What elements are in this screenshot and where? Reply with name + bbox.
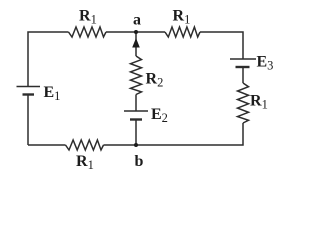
battery E1 short plate (23, 93, 35, 95)
resistor R1 top-right (165, 27, 200, 37)
svg-text:b: b (135, 153, 144, 170)
battery E3 short plate (236, 66, 250, 68)
resistor R1 bottom (66, 140, 104, 150)
svg-text:R1: R1 (250, 93, 268, 112)
battery E1 long plate (17, 86, 41, 88)
resistor R1 top-left (69, 27, 107, 37)
svg-text:E3: E3 (257, 54, 274, 73)
resistor R2 (131, 56, 142, 95)
wire top-middle segment (106, 31, 165, 33)
wire right lower segment (104, 123, 244, 145)
node a junction dot (134, 30, 138, 34)
svg-text:R1: R1 (76, 153, 94, 172)
battery E2 short plate (130, 118, 142, 120)
node b junction dot (134, 143, 138, 147)
svg-text:R2: R2 (146, 71, 164, 90)
battery E3 long plate (230, 58, 256, 60)
wire E3 to R1 right (242, 67, 244, 83)
svg-text:R1: R1 (79, 8, 97, 27)
wire top-right segment (200, 32, 243, 59)
battery E2 long plate (124, 110, 148, 112)
svg-text:R1: R1 (173, 8, 191, 27)
wire middle branch upper (node a to R2) (135, 32, 137, 56)
current arrow into node a (132, 38, 140, 48)
wire E2 to node b (135, 120, 137, 146)
wire R2 to E2 (135, 95, 137, 111)
wire left upper segment (28, 32, 69, 87)
svg-text:E1: E1 (44, 84, 61, 103)
wire top-left segment (27, 95, 29, 145)
resistor R1 right (238, 83, 249, 123)
svg-text:a: a (133, 12, 141, 29)
svg-text:E2: E2 (151, 106, 168, 125)
wire bottom-left segment (28, 144, 66, 146)
